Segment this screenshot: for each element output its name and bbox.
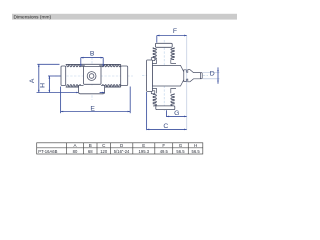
right view: barbed outlet stem — [184, 70, 201, 82]
D dimension — [203, 72, 220, 74]
svg-text:B: B — [90, 50, 95, 57]
left view: side port circle — [87, 72, 96, 81]
right view: bottom threaded section — [153, 93, 156, 106]
right view: top threaded section — [153, 47, 156, 59]
left view centerlines (light blue dashed) — [55, 75, 133, 77]
G dimension — [166, 110, 168, 117]
left view: block top lip — [81, 64, 103, 66]
svg-text:E: E — [90, 106, 95, 113]
header bar — [12, 14, 237, 20]
svg-text:B: B — [89, 143, 92, 148]
left view: horizontal fitting body — [66, 64, 81, 66]
F dimension — [157, 35, 187, 37]
svg-text:120: 120 — [100, 149, 108, 154]
svg-text:56.5: 56.5 — [176, 149, 185, 154]
right view: bottom end cap — [156, 106, 175, 110]
svg-text:F: F — [162, 143, 165, 148]
svg-text:56.5: 56.5 — [192, 149, 201, 154]
right view: flange plate edge-on with tabs — [151, 58, 155, 61]
svg-text:G: G — [174, 110, 179, 117]
svg-text:80: 80 — [73, 149, 78, 154]
svg-text:PT-16A6B: PT-16A6B — [38, 149, 57, 154]
left view: center block — [84, 66, 102, 84]
svg-text:195.3: 195.3 — [139, 149, 150, 154]
baseline + plate arrows — [37, 92, 78, 94]
left view: right end cap — [121, 66, 128, 86]
svg-text:H: H — [194, 143, 197, 148]
right view: top end cap — [155, 43, 172, 47]
svg-text:68: 68 — [88, 149, 93, 154]
svg-text:49.5: 49.5 — [160, 149, 169, 154]
svg-text:H: H — [40, 83, 47, 88]
A dimension — [38, 64, 40, 92]
H dimension — [48, 76, 50, 93]
svg-text:C: C — [163, 123, 168, 130]
right view centerlines — [163, 40, 165, 111]
left view: left end cap — [61, 66, 66, 86]
E dimension — [60, 87, 62, 114]
svg-text:E: E — [142, 143, 145, 148]
C dimension — [146, 92, 148, 130]
table — [37, 143, 203, 154]
svg-text:F: F — [173, 28, 177, 35]
B dimension — [81, 57, 103, 59]
svg-text:5/16”-24: 5/16”-24 — [114, 149, 130, 154]
svg-text:Dimensions (mm): Dimensions (mm) — [14, 14, 52, 20]
svg-text:D: D — [210, 71, 215, 78]
svg-text:A: A — [29, 78, 36, 83]
left view: mounting flange plate — [79, 85, 105, 93]
right view: center block with cone — [152, 65, 184, 86]
svg-text:G: G — [179, 143, 183, 148]
svg-text:A: A — [73, 143, 76, 148]
